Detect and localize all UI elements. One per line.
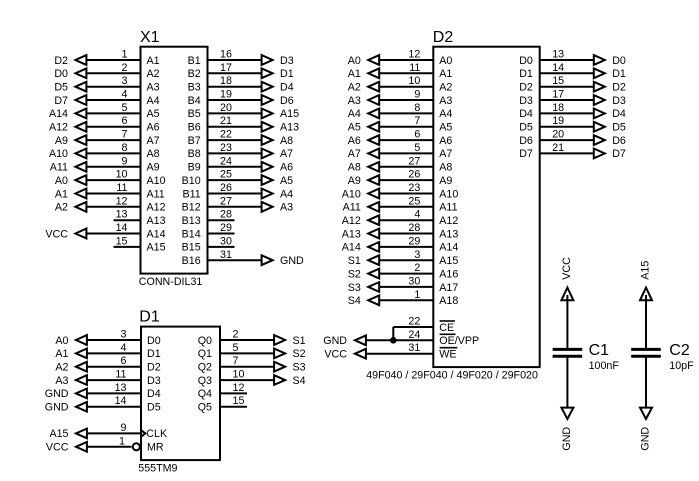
svg-text:B8: B8 xyxy=(188,148,201,160)
svg-text:10: 10 xyxy=(233,369,245,381)
svg-text:D7: D7 xyxy=(612,148,626,160)
svg-text:24: 24 xyxy=(220,155,232,167)
svg-text:D5: D5 xyxy=(54,82,68,94)
svg-text:A0: A0 xyxy=(348,55,361,67)
svg-text:D2: D2 xyxy=(54,55,68,67)
svg-text:GND: GND xyxy=(45,388,69,400)
svg-text:CE: CE xyxy=(439,322,454,334)
svg-text:D4: D4 xyxy=(612,108,626,120)
svg-text:D2: D2 xyxy=(519,82,533,94)
svg-text:A5: A5 xyxy=(439,122,452,134)
svg-text:10: 10 xyxy=(116,169,128,181)
svg-text:A8: A8 xyxy=(348,162,361,174)
svg-text:22: 22 xyxy=(408,316,420,328)
svg-text:B4: B4 xyxy=(188,95,201,107)
svg-text:14: 14 xyxy=(115,395,127,407)
svg-text:A13: A13 xyxy=(280,122,299,134)
svg-text:A7: A7 xyxy=(280,148,293,160)
svg-text:21: 21 xyxy=(220,115,232,127)
svg-text:Q0: Q0 xyxy=(198,335,212,347)
svg-text:8: 8 xyxy=(122,142,128,154)
svg-text:5: 5 xyxy=(233,342,239,354)
svg-text:13: 13 xyxy=(116,209,128,221)
svg-text:14: 14 xyxy=(116,222,128,234)
svg-text:A4: A4 xyxy=(280,188,293,200)
svg-text:D3: D3 xyxy=(280,55,294,67)
svg-text:VCC: VCC xyxy=(561,257,573,280)
svg-text:D6: D6 xyxy=(612,135,626,147)
svg-text:12: 12 xyxy=(408,49,420,61)
svg-text:13: 13 xyxy=(552,49,564,61)
svg-text:16: 16 xyxy=(220,49,232,61)
svg-text:A3: A3 xyxy=(348,95,361,107)
svg-text:A3: A3 xyxy=(147,82,160,94)
svg-text:B7: B7 xyxy=(188,135,201,147)
svg-text:25: 25 xyxy=(220,169,232,181)
svg-text:B3: B3 xyxy=(188,82,201,94)
svg-text:A4: A4 xyxy=(348,108,361,120)
svg-text:28: 28 xyxy=(220,209,232,221)
svg-text:D1: D1 xyxy=(280,68,294,80)
svg-text:A3: A3 xyxy=(280,202,293,214)
svg-text:D4: D4 xyxy=(519,108,533,120)
svg-text:D2: D2 xyxy=(612,82,626,94)
svg-text:D4: D4 xyxy=(147,388,161,400)
svg-text:CONN-DIL31: CONN-DIL31 xyxy=(139,276,203,288)
svg-text:MR: MR xyxy=(147,442,164,454)
svg-text:D5: D5 xyxy=(612,122,626,134)
svg-text:X1: X1 xyxy=(140,29,160,46)
svg-text:A2: A2 xyxy=(439,82,452,94)
svg-text:2: 2 xyxy=(414,262,420,274)
svg-text:B2: B2 xyxy=(188,68,201,80)
svg-text:3: 3 xyxy=(121,329,127,341)
svg-text:S1: S1 xyxy=(348,255,361,267)
svg-text:D6: D6 xyxy=(519,135,533,147)
svg-text:A15: A15 xyxy=(439,255,458,267)
svg-text:D0: D0 xyxy=(612,55,626,67)
svg-text:Q1: Q1 xyxy=(198,348,212,360)
svg-text:A15: A15 xyxy=(640,261,652,280)
svg-text:A2: A2 xyxy=(147,68,160,80)
svg-text:VCC: VCC xyxy=(324,349,347,361)
svg-text:A8: A8 xyxy=(439,162,452,174)
svg-text:A9: A9 xyxy=(55,135,68,147)
svg-text:3: 3 xyxy=(122,75,128,87)
svg-text:A6: A6 xyxy=(280,162,293,174)
svg-text:14: 14 xyxy=(552,62,564,74)
svg-text:6: 6 xyxy=(122,115,128,127)
svg-text:9: 9 xyxy=(122,155,128,167)
svg-text:GND: GND xyxy=(640,427,652,451)
svg-text:A10: A10 xyxy=(439,188,458,200)
svg-text:A1: A1 xyxy=(55,348,68,360)
svg-text:A18: A18 xyxy=(439,295,458,307)
svg-text:B10: B10 xyxy=(182,175,201,187)
svg-text:9: 9 xyxy=(414,89,420,101)
svg-text:15: 15 xyxy=(233,395,245,407)
svg-text:A5: A5 xyxy=(280,175,293,187)
svg-text:1: 1 xyxy=(119,435,125,447)
svg-text:100nF: 100nF xyxy=(589,360,620,372)
svg-text:A1: A1 xyxy=(439,68,452,80)
svg-text:B15: B15 xyxy=(182,242,201,254)
svg-text:5: 5 xyxy=(414,142,420,154)
svg-text:D7: D7 xyxy=(54,95,68,107)
svg-text:A14: A14 xyxy=(342,242,361,254)
svg-text:D0: D0 xyxy=(54,68,68,80)
svg-text:C2: C2 xyxy=(669,342,690,359)
svg-text:A2: A2 xyxy=(55,362,68,374)
svg-text:A11: A11 xyxy=(147,188,165,200)
svg-text:B12: B12 xyxy=(182,202,201,214)
svg-text:D1: D1 xyxy=(519,68,533,80)
svg-text:17: 17 xyxy=(552,89,564,101)
svg-text:D1: D1 xyxy=(139,308,160,325)
svg-text:27: 27 xyxy=(220,195,232,207)
svg-text:A2: A2 xyxy=(348,82,361,94)
svg-text:C1: C1 xyxy=(589,342,610,359)
svg-text:S4: S4 xyxy=(348,295,361,307)
svg-text:26: 26 xyxy=(408,169,420,181)
svg-text:49F040 / 29F040 / 49F020 / 29F: 49F040 / 29F040 / 49F020 / 29F020 xyxy=(366,369,538,381)
svg-text:15: 15 xyxy=(552,75,564,87)
svg-text:A11: A11 xyxy=(439,202,457,214)
svg-text:A4: A4 xyxy=(147,95,160,107)
svg-text:B1: B1 xyxy=(188,55,201,67)
svg-text:A13: A13 xyxy=(147,215,166,227)
svg-text:31: 31 xyxy=(220,249,232,261)
svg-text:S2: S2 xyxy=(348,268,361,280)
svg-text:A12: A12 xyxy=(49,122,68,134)
svg-text:A8: A8 xyxy=(147,148,160,160)
svg-text:29: 29 xyxy=(220,222,232,234)
svg-text:11: 11 xyxy=(116,182,127,194)
svg-text:10pF: 10pF xyxy=(669,360,694,372)
svg-text:S3: S3 xyxy=(348,282,361,294)
svg-text:A10: A10 xyxy=(147,175,166,187)
svg-text:S4: S4 xyxy=(293,375,306,387)
svg-text:A3: A3 xyxy=(55,375,68,387)
svg-text:21: 21 xyxy=(552,142,564,154)
svg-text:A0: A0 xyxy=(439,55,452,67)
svg-text:D5: D5 xyxy=(519,122,533,134)
svg-text:D0: D0 xyxy=(519,55,533,67)
svg-text:4: 4 xyxy=(414,209,420,221)
svg-text:Q3: Q3 xyxy=(198,375,212,387)
svg-text:7: 7 xyxy=(414,115,420,127)
svg-text:A5: A5 xyxy=(348,122,361,134)
svg-text:A7: A7 xyxy=(147,135,160,147)
svg-text:A2: A2 xyxy=(55,202,68,214)
svg-text:555TM9: 555TM9 xyxy=(138,463,177,475)
svg-text:11: 11 xyxy=(115,369,126,381)
svg-text:D1: D1 xyxy=(612,68,626,80)
svg-text:GND: GND xyxy=(280,255,304,267)
svg-text:18: 18 xyxy=(552,102,564,114)
svg-text:28: 28 xyxy=(408,222,420,234)
svg-text:B13: B13 xyxy=(182,215,201,227)
svg-text:26: 26 xyxy=(220,182,232,194)
svg-text:A12: A12 xyxy=(342,215,361,227)
svg-text:D2: D2 xyxy=(433,29,454,46)
svg-text:A11: A11 xyxy=(50,162,68,174)
svg-text:B5: B5 xyxy=(188,108,201,120)
svg-text:A15: A15 xyxy=(280,108,299,120)
svg-text:6: 6 xyxy=(414,129,420,141)
svg-text:27: 27 xyxy=(408,155,420,167)
svg-text:VCC: VCC xyxy=(45,228,68,240)
svg-text:A6: A6 xyxy=(147,122,160,134)
svg-text:D1: D1 xyxy=(147,348,161,360)
svg-text:A13: A13 xyxy=(342,228,361,240)
svg-text:A10: A10 xyxy=(342,188,361,200)
svg-text:19: 19 xyxy=(220,89,232,101)
svg-text:11: 11 xyxy=(409,62,420,74)
svg-text:22: 22 xyxy=(220,129,232,141)
svg-text:A7: A7 xyxy=(348,148,361,160)
svg-text:18: 18 xyxy=(220,75,232,87)
svg-text:GND: GND xyxy=(561,427,573,451)
svg-text:S2: S2 xyxy=(293,348,306,360)
svg-text:A8: A8 xyxy=(280,135,293,147)
svg-text:13: 13 xyxy=(115,382,127,394)
svg-text:17: 17 xyxy=(220,62,232,74)
svg-text:Q2: Q2 xyxy=(198,362,212,374)
svg-text:20: 20 xyxy=(220,102,232,114)
svg-text:4: 4 xyxy=(122,89,128,101)
svg-text:WE: WE xyxy=(439,349,456,361)
svg-text:A1: A1 xyxy=(55,188,68,200)
svg-text:A0: A0 xyxy=(55,175,68,187)
svg-text:A14: A14 xyxy=(439,242,458,254)
svg-text:2: 2 xyxy=(233,329,239,341)
svg-text:5: 5 xyxy=(122,102,128,114)
svg-text:A6: A6 xyxy=(348,135,361,147)
svg-text:19: 19 xyxy=(552,115,564,127)
svg-text:A16: A16 xyxy=(439,268,458,280)
svg-text:A7: A7 xyxy=(439,148,452,160)
svg-text:23: 23 xyxy=(408,182,420,194)
svg-text:B6: B6 xyxy=(188,122,201,134)
svg-text:D2: D2 xyxy=(147,362,161,374)
svg-text:9: 9 xyxy=(121,422,127,434)
svg-text:Q4: Q4 xyxy=(198,388,212,400)
svg-text:30: 30 xyxy=(408,275,420,287)
svg-text:31: 31 xyxy=(408,342,420,354)
svg-text:3: 3 xyxy=(414,249,420,261)
svg-text:A14: A14 xyxy=(49,108,68,120)
svg-text:8: 8 xyxy=(414,102,420,114)
svg-text:GND: GND xyxy=(323,335,347,347)
svg-text:6: 6 xyxy=(121,355,127,367)
svg-text:12: 12 xyxy=(233,382,245,394)
svg-text:Q5: Q5 xyxy=(198,402,212,414)
svg-text:23: 23 xyxy=(220,142,232,154)
svg-text:A3: A3 xyxy=(439,95,452,107)
svg-text:S1: S1 xyxy=(293,335,306,347)
svg-text:A4: A4 xyxy=(439,108,452,120)
svg-text:S3: S3 xyxy=(293,362,306,374)
svg-text:24: 24 xyxy=(408,329,420,341)
svg-text:D7: D7 xyxy=(519,148,533,160)
svg-text:D3: D3 xyxy=(519,95,533,107)
svg-text:A17: A17 xyxy=(439,282,458,294)
svg-text:B11: B11 xyxy=(182,188,200,200)
svg-text:B14: B14 xyxy=(182,228,201,240)
svg-text:D4: D4 xyxy=(280,82,294,94)
svg-text:A1: A1 xyxy=(147,55,160,67)
svg-text:A10: A10 xyxy=(49,148,68,160)
svg-text:20: 20 xyxy=(552,129,564,141)
svg-text:A12: A12 xyxy=(147,202,166,214)
svg-text:7: 7 xyxy=(122,129,128,141)
svg-text:A9: A9 xyxy=(147,162,160,174)
svg-text:A9: A9 xyxy=(348,175,361,187)
svg-text:CLK: CLK xyxy=(146,428,168,440)
svg-text:A1: A1 xyxy=(348,68,361,80)
svg-text:A15: A15 xyxy=(49,428,68,440)
svg-text:A13: A13 xyxy=(439,228,458,240)
svg-text:12: 12 xyxy=(116,195,128,207)
svg-text:D3: D3 xyxy=(147,375,161,387)
svg-text:15: 15 xyxy=(116,235,128,247)
svg-text:A6: A6 xyxy=(439,135,452,147)
svg-text:A9: A9 xyxy=(439,175,452,187)
svg-text:A5: A5 xyxy=(147,108,160,120)
svg-text:D5: D5 xyxy=(147,402,161,414)
svg-text:29: 29 xyxy=(408,235,420,247)
svg-text:GND: GND xyxy=(45,402,69,414)
svg-text:4: 4 xyxy=(121,342,127,354)
svg-text:2: 2 xyxy=(122,62,128,74)
svg-text:A12: A12 xyxy=(439,215,458,227)
svg-text:B16: B16 xyxy=(182,255,201,267)
svg-text:30: 30 xyxy=(220,235,232,247)
svg-text:D0: D0 xyxy=(147,335,161,347)
svg-text:D3: D3 xyxy=(612,95,626,107)
svg-text:A14: A14 xyxy=(147,228,166,240)
svg-text:D6: D6 xyxy=(280,95,294,107)
svg-text:A15: A15 xyxy=(147,242,166,254)
svg-text:A11: A11 xyxy=(343,202,361,214)
svg-text:1: 1 xyxy=(414,289,420,301)
svg-text:7: 7 xyxy=(233,355,239,367)
svg-text:B9: B9 xyxy=(188,162,201,174)
svg-text:OE/VPP: OE/VPP xyxy=(439,335,479,347)
svg-text:A0: A0 xyxy=(55,335,68,347)
svg-text:10: 10 xyxy=(408,75,420,87)
svg-text:VCC: VCC xyxy=(46,442,69,454)
svg-text:1: 1 xyxy=(122,49,128,61)
svg-text:25: 25 xyxy=(408,195,420,207)
